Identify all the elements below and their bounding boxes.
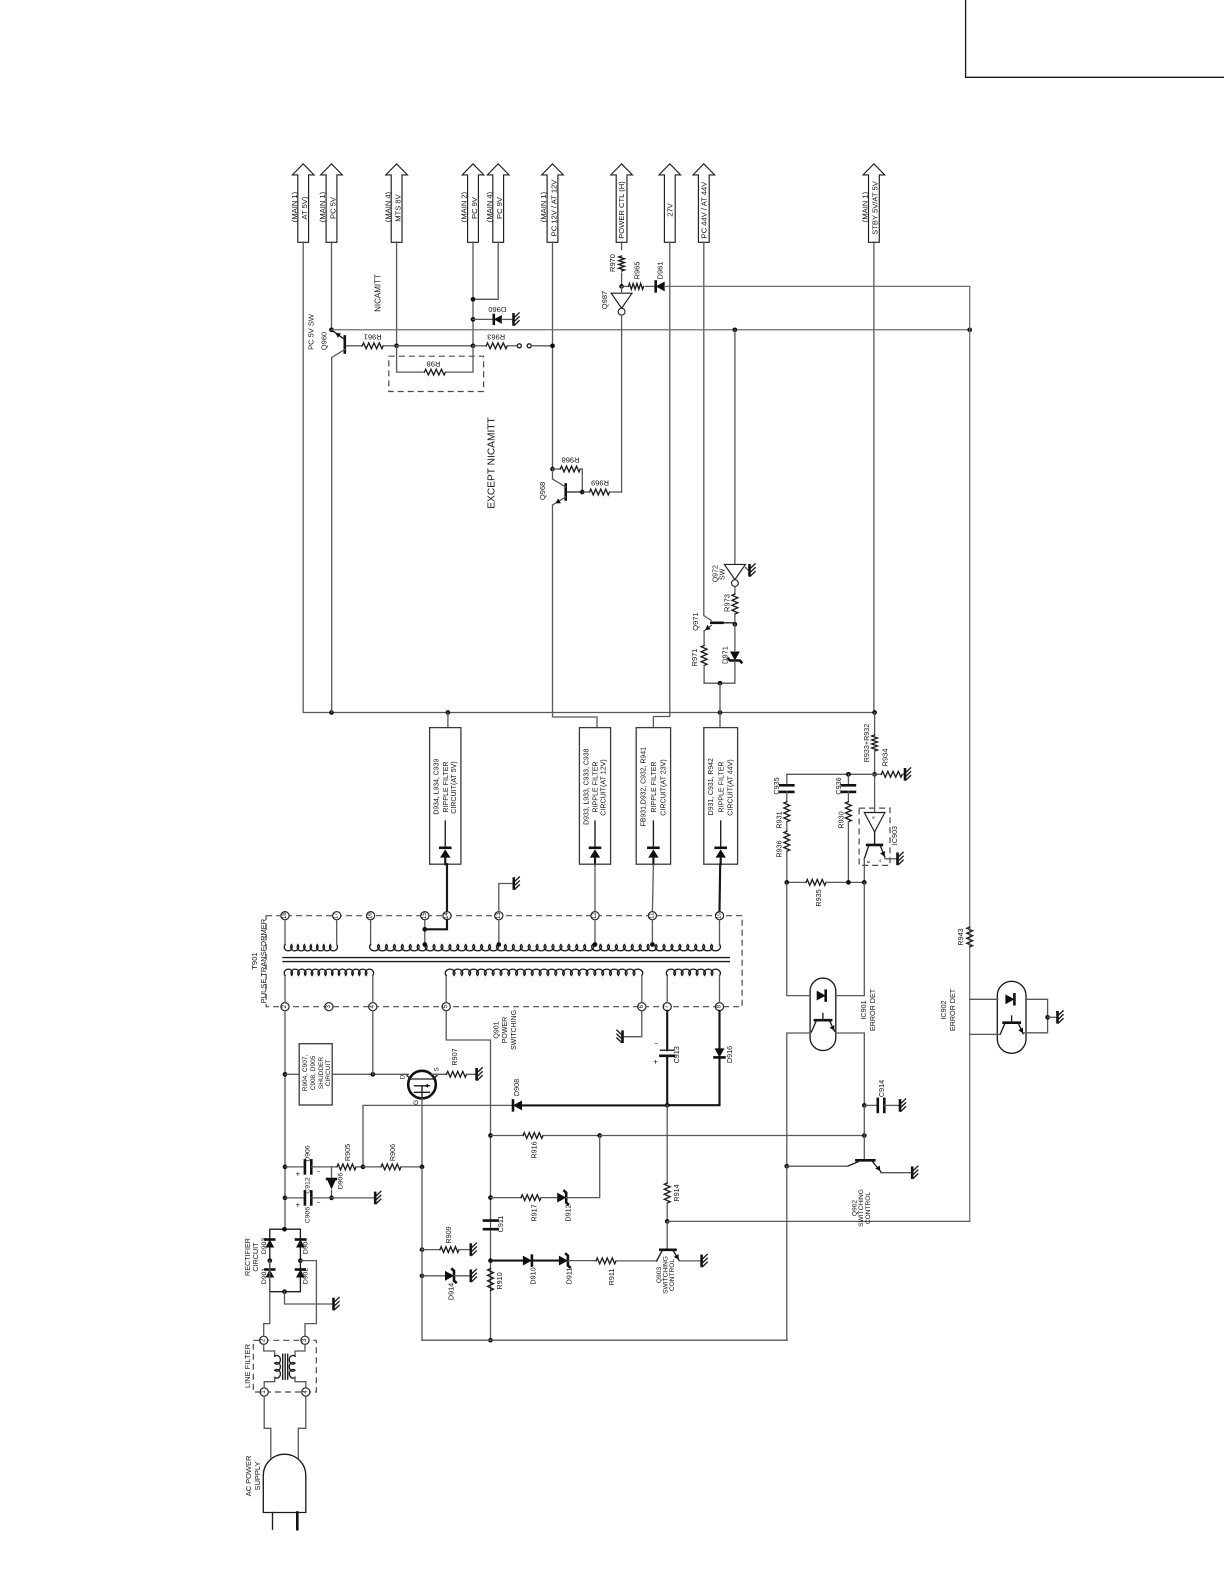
diode D903 <box>261 1238 274 1254</box>
diode D901 <box>261 1268 274 1284</box>
wire IC902 cathode loop + ground <box>1024 999 1064 1033</box>
wire 490 column <box>488 1133 493 1342</box>
svg-text:STBY 5V/AT 5V: STBY 5V/AT 5V <box>871 180 880 235</box>
net arrow (MAIN 1) PC 12V / AT 12V <box>539 164 563 243</box>
svg-text:+: + <box>295 1169 300 1178</box>
diode D910 <box>491 1256 538 1285</box>
svg-text:MTS 8V: MTS 8V <box>393 193 402 221</box>
T901 pin 16 <box>367 912 375 920</box>
resistor R98 bypass <box>397 346 473 375</box>
wire D961 to right rail <box>665 285 970 287</box>
svg-text:PC 5V SW: PC 5V SW <box>307 313 316 350</box>
line filter dashed box <box>243 1340 316 1392</box>
svg-text:G: G <box>413 1100 420 1105</box>
wire IC901 emitter <box>835 1033 866 1108</box>
wire T901 pin5 jog <box>446 1011 490 1136</box>
svg-text:R933+R932: R933+R932 <box>862 724 871 763</box>
line filter pin 3 <box>301 1336 309 1344</box>
wire IC901 collector <box>784 1033 810 1169</box>
svg-text:17: 17 <box>334 912 340 919</box>
zener diode D971 <box>720 624 741 683</box>
resistor R970 <box>608 254 625 289</box>
svg-text:IC903: IC903 <box>890 826 899 845</box>
svg-text:D902: D902 <box>303 1268 310 1284</box>
svg-text:POWER CTL (H): POWER CTL (H) <box>617 181 626 239</box>
inverter transistor Q972 SW <box>713 564 756 587</box>
resistor R936 <box>775 831 790 882</box>
photocoupler IC902 error det <box>939 981 1026 1053</box>
svg-text:CONTROL: CONTROL <box>865 1192 872 1225</box>
connector pair <box>517 343 555 348</box>
svg-text:C935: C935 <box>772 777 781 794</box>
resistor R934 <box>875 749 911 781</box>
svg-text:14: 14 <box>444 912 450 919</box>
transistor Q960 <box>319 332 345 713</box>
diode D904 <box>296 1238 310 1254</box>
line filter transformer <box>264 1344 306 1388</box>
resistor R971 <box>690 631 735 686</box>
T901 primary winding 5-6 <box>445 969 642 1002</box>
svg-text:RIPPLE FILTER: RIPPLE FILTER <box>650 761 658 812</box>
wire bus PC5V-SW horizontal <box>332 327 973 332</box>
svg-text:CIRCUIT(AT 5V): CIRCUIT(AT 5V) <box>450 761 458 814</box>
wire node row <box>787 772 875 777</box>
T901 pin 11 <box>648 912 656 920</box>
wire row345 mid <box>397 343 476 348</box>
svg-text:D916: D916 <box>725 1046 734 1063</box>
svg-text:R911: R911 <box>607 1269 616 1286</box>
svg-text:POWER: POWER <box>502 1017 509 1043</box>
wire pin2 column <box>283 1011 288 1229</box>
resistor R963 <box>473 332 517 348</box>
svg-text:R969: R969 <box>591 479 609 488</box>
svg-text:ERROR DET: ERROR DET <box>948 988 957 1031</box>
svg-text:D: D <box>400 1074 407 1079</box>
svg-text:R909: R909 <box>444 1226 453 1243</box>
svg-text:R914: R914 <box>672 1184 681 1201</box>
svg-text:R906: R906 <box>388 1144 397 1161</box>
svg-text:R907: R907 <box>450 1048 459 1065</box>
svg-text:S: S <box>433 1067 440 1072</box>
svg-text:27V: 27V <box>665 202 674 216</box>
svg-text:D934, L934, C939: D934, L934, C939 <box>434 759 441 815</box>
wire pin4 column <box>372 1011 374 1075</box>
svg-text:R917: R917 <box>530 1204 539 1221</box>
transistor Q968 <box>538 479 582 505</box>
svg-text:R943: R943 <box>956 928 965 945</box>
svg-text:−: − <box>316 1169 320 1176</box>
svg-text:Q971: Q971 <box>691 612 700 630</box>
svg-text:D901: D901 <box>261 1268 268 1284</box>
resistor R933+R932 <box>862 713 877 777</box>
capacitor C913 (polarized) <box>653 1011 681 1108</box>
T901 core <box>283 958 729 962</box>
wire 27V vertical <box>653 242 669 728</box>
svg-text:+: + <box>295 1200 300 1209</box>
wire MAIN4 PC9V vertical + jog <box>471 242 499 302</box>
transistor Q971 <box>691 612 735 630</box>
photocoupler IC901 error det <box>810 978 877 1050</box>
wire IC902 anode <box>970 998 998 1000</box>
svg-text:CONTROL: CONTROL <box>669 1259 676 1292</box>
line filter pin 2 <box>260 1336 268 1344</box>
svg-text:C911: C911 <box>496 1216 505 1233</box>
resistor R931 <box>775 802 790 831</box>
svg-text:CIRCUIT(AT 23V): CIRCUIT(AT 23V) <box>660 759 668 816</box>
resistor R935 <box>784 880 866 907</box>
T901 pin 5 <box>442 1003 450 1011</box>
wire PC44V vertical <box>703 242 705 616</box>
svg-text:R905: R905 <box>343 1144 352 1161</box>
diode D906 <box>327 1167 344 1200</box>
wire Q972 column <box>734 330 736 565</box>
svg-text:−: − <box>316 1200 320 1207</box>
svg-text:PC 9V: PC 9V <box>495 196 504 219</box>
resistor R909 <box>420 1226 477 1255</box>
wire IC901 emitter lower <box>863 1105 865 1159</box>
wire AT5V vertical <box>302 242 304 713</box>
wire MTS8V vertical <box>396 242 398 346</box>
resistor R907 <box>432 1048 483 1080</box>
T901 tap pin12 <box>593 920 598 947</box>
resistor R910 <box>488 1269 504 1291</box>
wire STBY vertical <box>873 242 875 713</box>
resistor R906 <box>363 1144 424 1170</box>
svg-text:RIPPLE FILTER: RIPPLE FILTER <box>442 761 450 812</box>
svg-text:PC 44V / AT 44V: PC 44V / AT 44V <box>699 181 708 239</box>
wire Q902 base row <box>787 1165 848 1167</box>
net arrow (MAIN 2) PC 9V <box>460 164 484 243</box>
svg-text:Q987: Q987 <box>600 291 609 309</box>
line filter pin 1 <box>260 1388 268 1396</box>
T901 secondary winding 16-10 <box>370 920 721 951</box>
svg-text:D904: D904 <box>303 1238 310 1254</box>
svg-text:IC901: IC901 <box>859 1000 868 1019</box>
svg-text:R916: R916 <box>530 1141 539 1158</box>
transistor Q903 switching control <box>656 1221 707 1293</box>
svg-text:D906: D906 <box>337 1173 344 1189</box>
svg-text:13: 13 <box>496 912 502 919</box>
wire box4 to pin10 <box>718 864 721 911</box>
T901 primary winding 2-4 <box>284 969 373 1002</box>
svg-text:RIPPLE FILTER: RIPPLE FILTER <box>717 761 725 812</box>
svg-text:D960: D960 <box>488 305 506 314</box>
svg-text:LINE FILTER: LINE FILTER <box>243 1343 252 1388</box>
photocoupler IC903 <box>859 774 903 865</box>
svg-text:D933, L933, C933, C938: D933, L933, C933, C938 <box>584 748 591 824</box>
svg-text:10: 10 <box>717 912 723 919</box>
svg-text:C914: C914 <box>877 1080 886 1097</box>
svg-text:PULSE TRANSFORMER: PULSE TRANSFORMER <box>259 918 268 1003</box>
svg-text:D910: D910 <box>529 1267 538 1284</box>
resistor R914 <box>664 1105 681 1224</box>
wire line filter to plug left <box>264 1396 271 1458</box>
svg-text:R936: R936 <box>775 840 784 857</box>
svg-text:R968: R968 <box>562 456 580 465</box>
T901 pin 15 <box>421 912 429 920</box>
svg-text:+: + <box>653 1058 658 1067</box>
ground at T901 pin6 <box>617 1011 642 1043</box>
capacitor C911 <box>484 1216 505 1233</box>
wire MAIN2 PC9V vertical <box>472 242 474 346</box>
resistor R965 <box>622 262 656 290</box>
ripple filter circuit AT 44V (D931,C931,R942) <box>704 728 738 865</box>
diode D908 <box>512 1079 667 1110</box>
net arrow (MAIN 1) PC 5V <box>318 164 342 243</box>
svg-text:R961: R961 <box>364 332 382 341</box>
svg-text:ERROR DET: ERROR DET <box>868 988 877 1031</box>
T901 tap pin15/pin14 <box>422 920 447 947</box>
svg-text:D911: D911 <box>565 1268 574 1285</box>
svg-text:SWITCHING: SWITCHING <box>511 1010 518 1050</box>
gate feedback row D908 <box>363 1105 513 1167</box>
svg-text:D971: D971 <box>720 646 729 664</box>
svg-text:11: 11 <box>649 912 655 919</box>
AC power plug <box>244 1454 306 1529</box>
diode D960 <box>471 305 519 325</box>
dashed box EXCEPT NICAMITT <box>389 356 498 509</box>
svg-text:R934: R934 <box>880 749 889 767</box>
diode D902 <box>296 1268 310 1284</box>
wire shudder row left <box>285 1073 299 1075</box>
wire IC902 collector <box>970 1033 1000 1035</box>
wire R914 node row <box>667 1220 970 1222</box>
svg-text:R98: R98 <box>427 359 441 368</box>
resistor R905 <box>332 1144 366 1170</box>
svg-text:CIRCUIT: CIRCUIT <box>325 1060 332 1086</box>
T901 pin 3 <box>325 1003 333 1011</box>
T901 pin 17 <box>333 912 341 920</box>
wire R916 row right <box>600 1133 867 1138</box>
wire Q901 gate <box>421 1098 423 1167</box>
capacitor C914 <box>864 1080 905 1112</box>
T901 pin 14 <box>443 912 451 920</box>
svg-text:NICAMITT: NICAMITT <box>374 274 383 312</box>
label NICAMITT <box>374 274 383 312</box>
svg-text:SHUDDER: SHUDDER <box>318 1057 325 1089</box>
wire box2 to pin12 <box>594 864 596 911</box>
svg-text:C906: C906 <box>305 1207 312 1223</box>
svg-text:PC 9V: PC 9V <box>470 196 479 219</box>
shudder circuit box R904 C907 C908 D905 <box>299 1044 332 1105</box>
svg-text:R904, C907,: R904, C907, <box>302 1055 309 1092</box>
svg-text:PC 12V / AT 12V: PC 12V / AT 12V <box>549 179 558 237</box>
wire IC901 cathode <box>835 882 864 995</box>
svg-text:AT 5V): AT 5V) <box>300 196 309 219</box>
line filter pin 4 <box>302 1388 310 1396</box>
wire line filter to plug right <box>298 1396 306 1458</box>
T901 tap pin13 + ground <box>496 877 519 947</box>
svg-text:D914: D914 <box>447 1283 456 1300</box>
resistor R930 <box>837 802 852 883</box>
svg-text:R973: R973 <box>723 594 732 612</box>
net arrow POWER CTL (H) <box>611 164 633 243</box>
svg-text:a: a <box>872 816 877 819</box>
net arrow 27V <box>659 164 681 243</box>
svg-text:C913: C913 <box>672 1046 681 1063</box>
svg-text:T901: T901 <box>250 952 259 969</box>
page frame corner <box>966 0 1224 77</box>
resistor R968 <box>550 456 585 495</box>
net arrow (MAIN 4) PC 9V <box>485 164 509 243</box>
wire PC12V lower <box>553 469 598 728</box>
svg-text:R971: R971 <box>690 649 699 667</box>
T901 winding 7-8 <box>666 969 720 1002</box>
label RECTIFIER CIRCUIT <box>243 1238 260 1276</box>
zener diode D912 <box>557 1136 600 1222</box>
wire gate node to R916 row <box>0 0 1 1</box>
T901 tap pin11 <box>650 920 655 947</box>
capacitor C912 (polarized) <box>285 1145 332 1193</box>
ground after C906 <box>332 1191 381 1203</box>
zener diode D911 <box>532 1254 574 1284</box>
transistor Q902 switching control <box>848 1160 918 1227</box>
svg-text:D961: D961 <box>656 262 665 280</box>
svg-text:D931, C931, R942: D931, C931, R942 <box>708 758 715 815</box>
inverter transistor Q987 <box>600 286 632 315</box>
svg-text:IC902: IC902 <box>939 1000 948 1019</box>
T901 pin 10 <box>715 912 723 920</box>
svg-text:PC 5V: PC 5V <box>328 196 337 219</box>
svg-text:SUPPLY: SUPPLY <box>253 1461 262 1490</box>
svg-text:D912: D912 <box>564 1204 573 1221</box>
wire IC901 collector lower <box>786 1166 788 1340</box>
resistor R911 <box>568 1258 657 1285</box>
MOSFET Q901 power switching <box>400 1010 519 1105</box>
svg-text:CIRCUIT(AT 44V): CIRCUIT(AT 44V) <box>727 759 735 816</box>
svg-text:Q968: Q968 <box>538 482 547 500</box>
ripple filter circuit AT 12V (D933,L933,C933,C938) <box>579 728 610 865</box>
svg-text:SW: SW <box>719 568 726 580</box>
zener diode D914 <box>420 1269 477 1300</box>
wire Q960 base <box>346 345 362 347</box>
svg-text:(MAIN 1): (MAIN 1) <box>290 191 299 222</box>
svg-text:CIRCUIT: CIRCUIT <box>251 1242 260 1272</box>
svg-text:16: 16 <box>368 912 374 919</box>
wire bridge to line filter pin2 <box>264 1261 270 1337</box>
capacitor C935 <box>772 774 793 802</box>
wire right rail vertical <box>969 286 971 928</box>
svg-text:CIRCUIT(AT 12V): CIRCUIT(AT 12V) <box>600 759 608 816</box>
ripple filter circuit AT 5V (D934,L934,C939) <box>430 713 461 865</box>
capacitor C936 <box>834 772 855 802</box>
svg-text:R963: R963 <box>487 332 505 341</box>
T901 pin 4 <box>369 1003 377 1011</box>
wire IC903 collector down <box>863 859 865 883</box>
svg-text:R935: R935 <box>814 889 823 906</box>
wire bus1 horizontal <box>303 710 877 715</box>
svg-text:RIPPLE FILTER: RIPPLE FILTER <box>592 761 600 812</box>
wire box3 to pin11 <box>652 864 653 911</box>
svg-text:Q901: Q901 <box>494 1021 501 1038</box>
net arrow (MAIN 1) STBY 5V/AT 5V <box>861 164 885 243</box>
svg-text:EXCEPT NICAMITT: EXCEPT NICAMITT <box>487 417 498 509</box>
svg-text:(MAIN 1): (MAIN 1) <box>318 191 327 222</box>
svg-text:(MAIN 4): (MAIN 4) <box>485 191 494 222</box>
svg-text:C936: C936 <box>834 777 843 794</box>
resistor R917 <box>491 1195 557 1222</box>
svg-text:D908: D908 <box>512 1079 521 1096</box>
svg-text:R930: R930 <box>837 811 846 828</box>
rectifier bridge outline <box>267 1227 302 1294</box>
net arrow (MAIN 1) AT 5V <box>290 164 314 243</box>
resistor R943 <box>956 927 972 947</box>
resistor R969 <box>582 479 621 495</box>
svg-text:R931: R931 <box>775 811 784 828</box>
wire Q987 output <box>621 315 623 492</box>
wire bridge to line filter pin3 <box>300 1261 316 1337</box>
net arrow (MAIN 4) MTS 8V <box>383 164 407 243</box>
svg-text:Q960: Q960 <box>319 332 328 350</box>
svg-text:12: 12 <box>592 912 598 919</box>
diode D916 <box>667 1011 734 1105</box>
wire bottom rail <box>422 1339 787 1341</box>
svg-text:AC POWER: AC POWER <box>244 1455 253 1496</box>
capacitor C906 (polarized) <box>285 1191 332 1223</box>
pulse transformer T901 dashed box <box>250 916 742 1007</box>
ripple filter circuit AT 23V (FB931,D932,C932,R941) <box>636 728 670 865</box>
resistor R973 <box>723 587 738 627</box>
wire POWER CTL vertical <box>621 242 623 250</box>
T901 secondary winding 18-17 <box>284 920 337 951</box>
T901 pin 6 <box>638 1003 646 1011</box>
resistor R916 <box>491 1133 603 1159</box>
wire PC5V vertical upper <box>329 242 334 332</box>
svg-text:(MAIN 1): (MAIN 1) <box>861 191 870 222</box>
T901 pin 13 <box>495 912 503 920</box>
svg-text:18: 18 <box>282 912 288 919</box>
svg-text:15: 15 <box>422 912 428 919</box>
svg-text:D906: D906 <box>305 1145 312 1161</box>
svg-text:(MAIN 1): (MAIN 1) <box>539 191 548 222</box>
T901 pin 2 <box>281 1003 289 1011</box>
label PC 5V SW <box>307 313 316 350</box>
T901 pin 7 <box>663 1003 671 1011</box>
wire shudder row right <box>332 1072 408 1077</box>
wire IC901 anode <box>787 882 811 995</box>
T901 pin 8 <box>715 1003 723 1011</box>
svg-text:C908, D905: C908, D905 <box>310 1055 317 1090</box>
svg-text:R965: R965 <box>633 262 642 280</box>
svg-text:(MAIN 2): (MAIN 2) <box>460 191 469 222</box>
svg-text:R970: R970 <box>608 254 617 272</box>
svg-text:FB931,D932, C932, R941: FB931,D932, C932, R941 <box>640 747 647 826</box>
svg-text:(MAIN 4): (MAIN 4) <box>383 191 392 222</box>
T901 pin 18 <box>281 912 289 920</box>
diode D961 <box>656 262 665 292</box>
wire gate column lower <box>421 1167 423 1340</box>
svg-text:−: − <box>654 1041 658 1048</box>
svg-text:R910: R910 <box>495 1272 504 1289</box>
wire right rail lower <box>969 947 971 1221</box>
resistor R961 <box>362 332 399 348</box>
wire D971 node to bus1 <box>719 683 721 727</box>
ground bridge negative <box>285 1292 340 1310</box>
svg-text:D903: D903 <box>261 1238 268 1254</box>
wire box1 to pin14 <box>446 864 448 911</box>
net arrow PC 44V / AT 44V <box>693 164 715 243</box>
T901 pin 12 <box>591 912 599 920</box>
wire PC12V vertical upper <box>552 242 554 469</box>
